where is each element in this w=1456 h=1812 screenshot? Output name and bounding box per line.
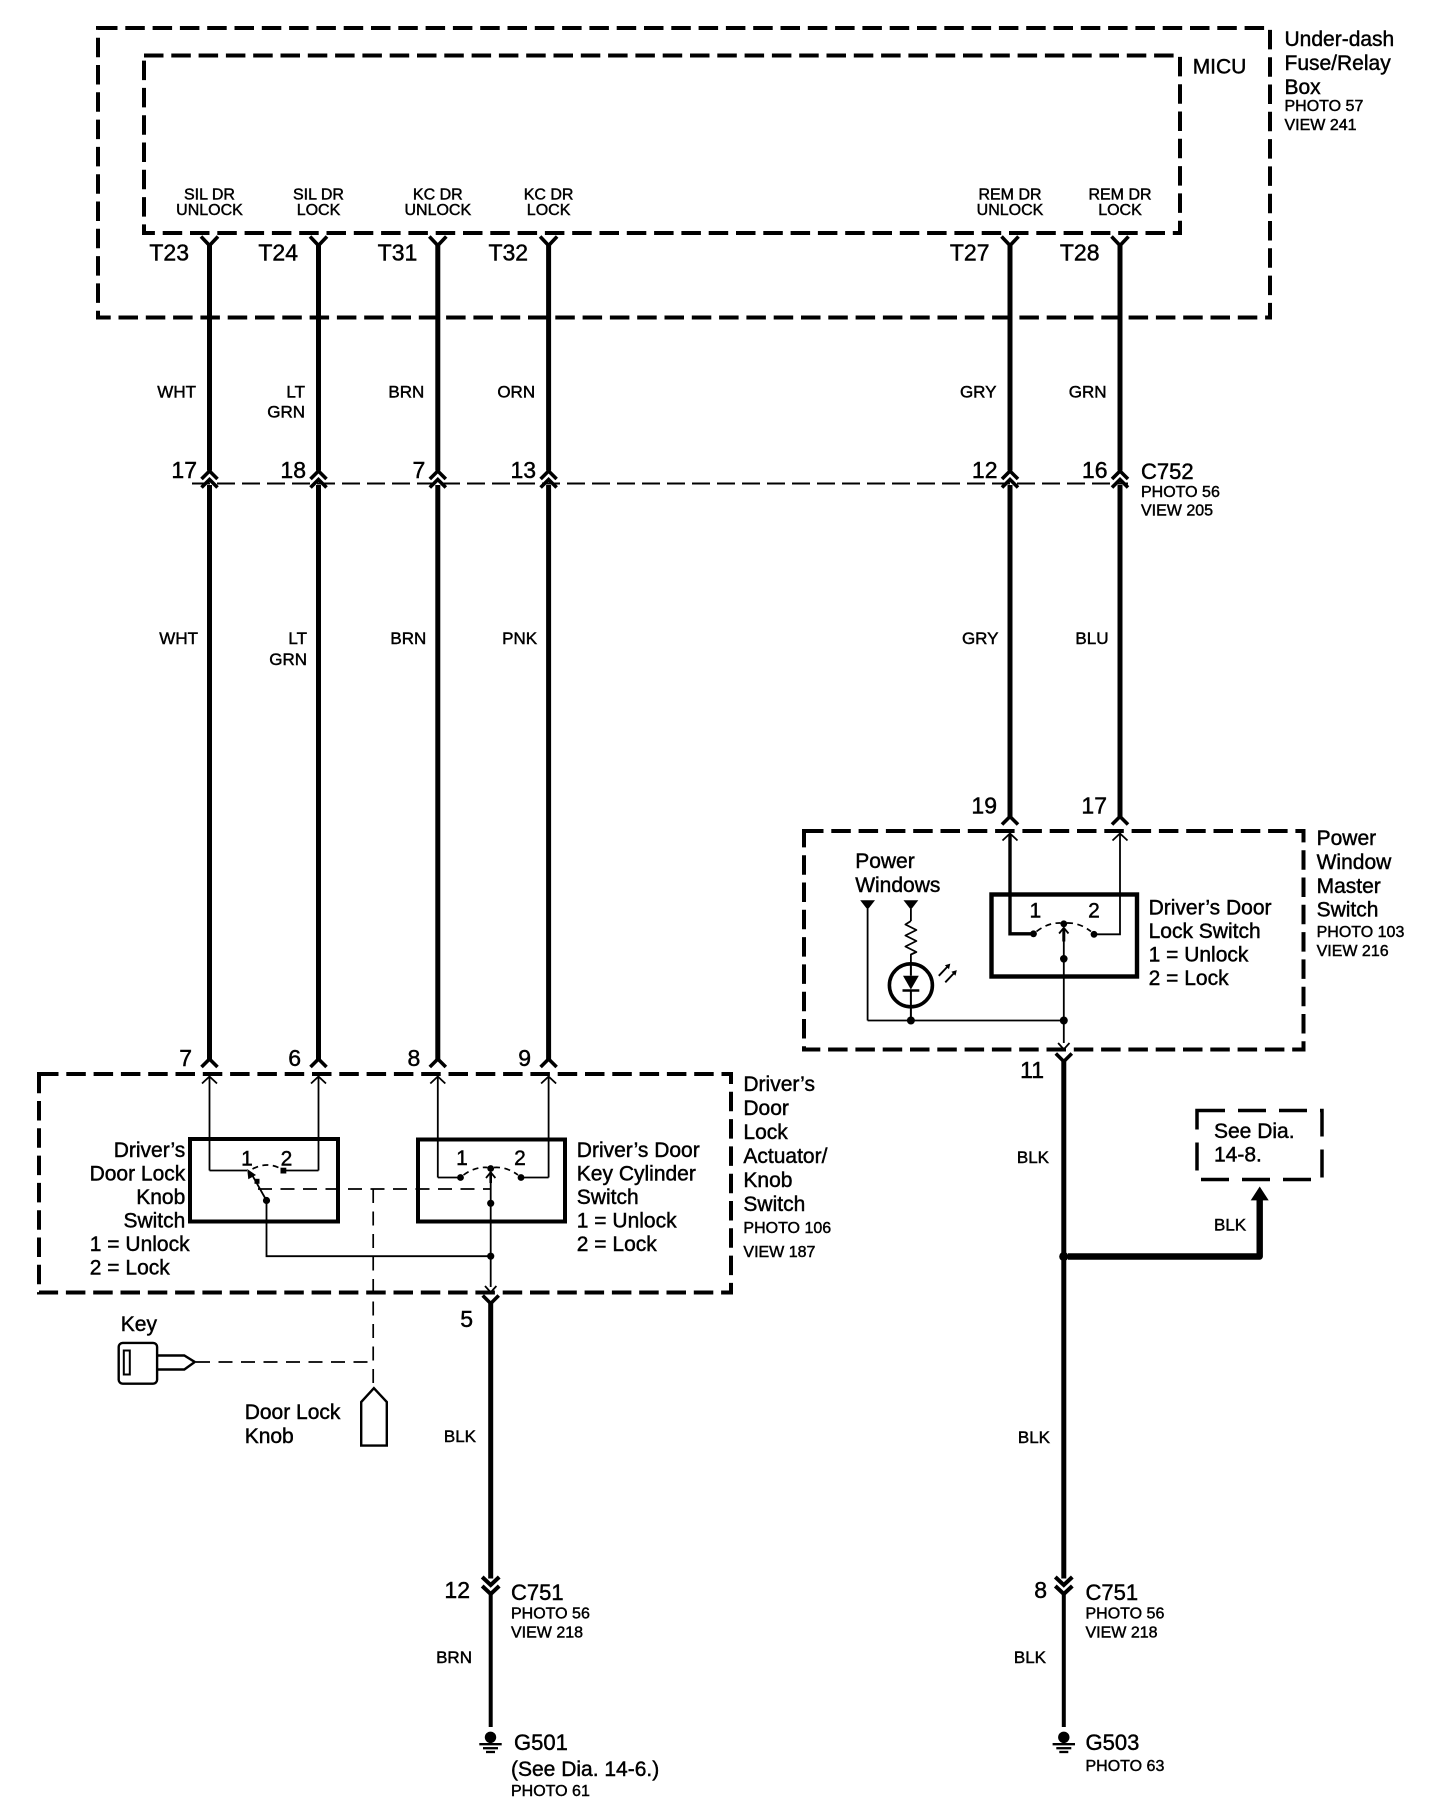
connector C751 left symbols bbox=[482, 1577, 499, 1594]
knob switch common lead down and right bbox=[267, 1201, 491, 1257]
svg-text:Driver’s Door: Driver’s Door bbox=[1149, 897, 1272, 920]
driver's door lock knob switch box bbox=[190, 1139, 338, 1222]
branch arrow to see dia 14-8 (triangle) bbox=[1251, 1187, 1269, 1201]
Door Lock Knob label bbox=[245, 1401, 341, 1448]
svg-text:Key: Key bbox=[121, 1313, 158, 1336]
lock switch common arrow bbox=[1059, 928, 1068, 1043]
svg-text:7: 7 bbox=[179, 1045, 192, 1071]
LED diode bar bbox=[903, 989, 920, 992]
C752 connector symbols on W1 bbox=[202, 471, 218, 488]
svg-text:G503: G503 bbox=[1086, 1730, 1140, 1755]
connector flare at master pin 19 bbox=[1002, 817, 1018, 825]
actuator box label bbox=[743, 1073, 831, 1261]
svg-text:Fuse/Relay: Fuse/Relay bbox=[1285, 52, 1392, 75]
key cylinder common arrow bbox=[486, 1172, 495, 1287]
connector C752 dashed line bbox=[192, 483, 1128, 485]
svg-text:SIL DR: SIL DR bbox=[184, 186, 235, 203]
key icon blade bbox=[157, 1356, 195, 1370]
svg-text:BRN: BRN bbox=[388, 383, 424, 402]
svg-text:LT: LT bbox=[288, 629, 307, 648]
svg-text:PHOTO 56: PHOTO 56 bbox=[1086, 1606, 1165, 1623]
key cylinder common stub bbox=[489, 1172, 492, 1183]
C752 pin 12 label bbox=[972, 457, 998, 483]
wire BRN from C751 to G501 bbox=[489, 1592, 493, 1727]
pin function label SIL DR LOCK bbox=[293, 186, 344, 219]
svg-text:T31: T31 bbox=[378, 240, 418, 266]
wire W3 BRN from C752 to actuator box bbox=[435, 485, 440, 1060]
svg-text:Driver’s: Driver’s bbox=[743, 1073, 815, 1096]
svg-text:2 = Lock: 2 = Lock bbox=[577, 1233, 657, 1256]
wire color label BLK (pin 11 lower) bbox=[1018, 1428, 1051, 1447]
internal arrow at pin 8 bbox=[430, 1077, 445, 1178]
see dia 14-8 label bbox=[1214, 1120, 1295, 1167]
svg-text:Knob: Knob bbox=[743, 1169, 792, 1192]
lock switch pin 1 label bbox=[1029, 900, 1041, 923]
svg-text:5: 5 bbox=[460, 1306, 473, 1332]
svg-text:MICU: MICU bbox=[1193, 56, 1247, 79]
svg-text:Driver’s Door: Driver’s Door bbox=[577, 1139, 700, 1162]
svg-text:T23: T23 bbox=[149, 240, 189, 266]
pin function label SIL DR UNLOCK bbox=[176, 186, 243, 219]
key cylinder wiring: pin9 lead to right contact bbox=[521, 1177, 549, 1179]
C752 connector symbols on W3 bbox=[430, 471, 446, 488]
knob switch label bbox=[90, 1139, 186, 1233]
svg-text:2 = Lock: 2 = Lock bbox=[1149, 967, 1229, 990]
svg-text:Switch: Switch bbox=[123, 1209, 185, 1232]
svg-text:1: 1 bbox=[241, 1148, 253, 1171]
lock switch contact 2 dot bbox=[1091, 931, 1098, 938]
master switch label bbox=[1317, 827, 1405, 960]
connector flare at actuator pin 6 bbox=[311, 1059, 327, 1067]
internal lead pin 19 to contact 1 bbox=[1010, 835, 1031, 934]
svg-text:C751: C751 bbox=[511, 1580, 564, 1605]
pin function label KC DR UNLOCK bbox=[404, 186, 471, 219]
lock switch dashed throws bbox=[1037, 923, 1092, 932]
terminal label T23 bbox=[149, 240, 189, 266]
svg-text:Driver’s: Driver’s bbox=[114, 1139, 186, 1162]
power window feed line 2 (to resistor) bbox=[910, 909, 912, 921]
wire color label LT GRN (upper) bbox=[267, 383, 305, 422]
internal lead pin 17 to contact 2 bbox=[1094, 835, 1120, 935]
Power Windows label bbox=[855, 850, 940, 897]
arrow at master box exit (pin 11) bbox=[1058, 1043, 1069, 1049]
wire color label BRN (ground lead) bbox=[436, 1648, 472, 1667]
svg-text:8: 8 bbox=[408, 1045, 421, 1071]
svg-text:GRY: GRY bbox=[962, 629, 999, 648]
svg-text:WHT: WHT bbox=[157, 383, 196, 402]
junction dot pin5 node bbox=[487, 1253, 494, 1260]
svg-text:T27: T27 bbox=[950, 240, 990, 266]
power window feed arrow 1 (triangle) bbox=[860, 900, 875, 909]
mechanical link dashed line (key to linkage) bbox=[196, 1361, 373, 1363]
svg-text:17: 17 bbox=[1081, 793, 1107, 819]
wire color label GRY (lower) bbox=[962, 629, 999, 648]
C752 pin 13 label bbox=[511, 457, 537, 483]
internal arrow at master pin 19 bbox=[1003, 834, 1018, 841]
ground G501 label bbox=[511, 1730, 659, 1800]
connector fork at MICU terminal T32 bbox=[540, 237, 557, 246]
svg-text:16: 16 bbox=[1082, 457, 1108, 483]
key icon head bbox=[119, 1343, 157, 1384]
key cylinder pin 1 label bbox=[456, 1147, 468, 1170]
knob switch pin 2 label bbox=[281, 1148, 293, 1171]
wire color label ORN (upper) bbox=[497, 383, 535, 402]
svg-text:Master: Master bbox=[1317, 875, 1381, 898]
lock switch pin 2 label bbox=[1088, 900, 1100, 923]
pin 5 label bbox=[460, 1306, 473, 1332]
lock switch common dot (inside box) bbox=[1060, 955, 1068, 963]
LED internal lead bbox=[910, 964, 912, 1021]
lock switch common stub bbox=[1062, 929, 1065, 942]
svg-text:GRY: GRY bbox=[960, 383, 997, 402]
svg-text:(See Dia. 14-6.): (See Dia. 14-6.) bbox=[511, 1758, 659, 1781]
svg-text:12: 12 bbox=[444, 1577, 470, 1603]
svg-text:1 = Unlock: 1 = Unlock bbox=[90, 1233, 190, 1256]
svg-text:BLU: BLU bbox=[1075, 629, 1108, 648]
svg-text:C752: C752 bbox=[1141, 459, 1194, 484]
wire color label BLK (ground lead right) bbox=[1014, 1648, 1047, 1667]
wire color label WHT (lower) bbox=[159, 629, 198, 648]
driver's door key cylinder switch box bbox=[418, 1140, 565, 1222]
resistor (illumination) bbox=[905, 921, 916, 964]
terminal label T24 bbox=[258, 240, 298, 266]
wire W6 GRN from T28 to C752 bbox=[1118, 245, 1123, 471]
svg-text:VIEW 216: VIEW 216 bbox=[1317, 943, 1389, 960]
common bus line inside master switch bbox=[868, 1020, 1064, 1022]
key cylinder pin 2 label bbox=[514, 1147, 526, 1170]
wire W5 GRY from T27 to C752 bbox=[1008, 245, 1013, 471]
mechanical link dashed line (vertical to knob) bbox=[372, 1189, 374, 1386]
connector fork at MICU terminal T28 bbox=[1112, 237, 1129, 246]
actuator box pin 8 label bbox=[408, 1045, 421, 1071]
svg-text:2 = Lock: 2 = Lock bbox=[90, 1256, 170, 1279]
svg-text:1 = Unlock: 1 = Unlock bbox=[1149, 944, 1249, 967]
connector fork at pin 11 bbox=[1056, 1054, 1072, 1062]
key cylinder pivot dot bbox=[487, 1165, 494, 1172]
svg-text:KC DR: KC DR bbox=[413, 186, 463, 203]
knob switch pin 1 label bbox=[241, 1148, 253, 1171]
svg-text:VIEW 187: VIEW 187 bbox=[743, 1244, 815, 1261]
svg-text:PHOTO 103: PHOTO 103 bbox=[1317, 924, 1405, 941]
wire W1 WHT from T23 to C752 bbox=[207, 245, 212, 471]
wire pin 5 BLK down to C751 bbox=[488, 1303, 493, 1579]
svg-text:WHT: WHT bbox=[159, 629, 198, 648]
svg-text:Knob: Knob bbox=[136, 1186, 185, 1209]
connector flare at actuator pin 8 bbox=[430, 1059, 446, 1067]
svg-text:Box: Box bbox=[1285, 76, 1322, 99]
svg-text:Switch: Switch bbox=[743, 1193, 805, 1216]
terminal label T32 bbox=[488, 240, 528, 266]
svg-text:1: 1 bbox=[1029, 900, 1041, 923]
MICU box (dashed) bbox=[144, 56, 1180, 234]
internal arrow at pin 6 bbox=[311, 1077, 326, 1171]
svg-text:UNLOCK: UNLOCK bbox=[404, 202, 471, 219]
lock switch contact 1 dot bbox=[1030, 930, 1037, 937]
see dia 14-8 reference box (dashed) bbox=[1197, 1111, 1322, 1180]
C752 connector symbols on W6 bbox=[1112, 471, 1128, 488]
knob switch lever arrowhead bbox=[247, 1169, 256, 1179]
master switch pin 19 label bbox=[971, 793, 997, 819]
svg-text:ORN: ORN bbox=[497, 383, 535, 402]
svg-text:BLK: BLK bbox=[444, 1427, 477, 1446]
junction dot at branch bbox=[1059, 1252, 1068, 1261]
svg-text:Switch: Switch bbox=[577, 1186, 639, 1209]
svg-text:Power: Power bbox=[855, 850, 915, 873]
wire color label BRN (lower) bbox=[390, 629, 426, 648]
key cylinder wiring: pin8 lead to left contact bbox=[438, 1177, 461, 1179]
svg-text:GRN: GRN bbox=[267, 403, 305, 422]
svg-text:11: 11 bbox=[1020, 1057, 1044, 1083]
wire W4 PNK from C752 to actuator box bbox=[546, 485, 551, 1060]
pin function label KC DR LOCK bbox=[524, 186, 574, 219]
pin function label REM DR UNLOCK bbox=[977, 186, 1044, 219]
svg-text:PHOTO 57: PHOTO 57 bbox=[1285, 98, 1364, 115]
C752 pin 7 label bbox=[413, 457, 426, 483]
connector fork at MICU terminal T23 bbox=[201, 237, 218, 246]
C752 pin 16 label bbox=[1082, 457, 1108, 483]
ground G503 symbol bbox=[1058, 1732, 1069, 1743]
svg-text:GRN: GRN bbox=[269, 650, 307, 669]
branch wire BLK to see dia 14-8 bbox=[1068, 1198, 1260, 1257]
C751 right pin 8 label bbox=[1034, 1577, 1047, 1603]
svg-text:C751: C751 bbox=[1086, 1580, 1139, 1605]
C751 left pin 12 label bbox=[444, 1577, 470, 1603]
internal arrow at pin 9 bbox=[541, 1077, 556, 1178]
knob switch wiring: pin7 lead to contact 1 bbox=[210, 1170, 248, 1172]
wire W2 LT GRN from T24 to C752 bbox=[316, 245, 321, 471]
wire BLK pin 11 down bbox=[1061, 1061, 1066, 1579]
svg-text:Door Lock: Door Lock bbox=[90, 1162, 186, 1185]
connector fork at MICU terminal T24 bbox=[310, 237, 327, 246]
svg-text:UNLOCK: UNLOCK bbox=[977, 202, 1044, 219]
internal arrow at master pin 17 bbox=[1113, 834, 1128, 841]
svg-text:T28: T28 bbox=[1060, 240, 1100, 266]
lock switch pivot dot bbox=[1060, 920, 1067, 927]
svg-text:Key Cylinder: Key Cylinder bbox=[577, 1162, 696, 1185]
svg-text:See Dia.: See Dia. bbox=[1214, 1120, 1295, 1143]
svg-text:12: 12 bbox=[972, 457, 998, 483]
svg-text:LOCK: LOCK bbox=[297, 202, 341, 219]
svg-text:6: 6 bbox=[288, 1045, 301, 1071]
svg-text:LT: LT bbox=[286, 383, 305, 402]
LED diode triangle bbox=[903, 976, 919, 990]
wire W4 ORN from T32 to C752 bbox=[546, 245, 551, 471]
driver's door lock actuator/knob switch box (dashed) bbox=[39, 1074, 731, 1293]
power window feed line 1 bbox=[867, 909, 869, 1021]
svg-text:Lock: Lock bbox=[743, 1121, 788, 1144]
svg-text:BLK: BLK bbox=[1014, 1648, 1047, 1667]
LED circle bbox=[889, 964, 932, 1007]
svg-text:14-8.: 14-8. bbox=[1214, 1144, 1262, 1167]
svg-text:T32: T32 bbox=[488, 240, 528, 266]
key cylinder dashed throws bbox=[464, 1167, 519, 1175]
svg-text:8: 8 bbox=[1034, 1577, 1047, 1603]
terminal label T28 bbox=[1060, 240, 1100, 266]
pin 11 label bbox=[1020, 1057, 1044, 1083]
svg-text:VIEW 218: VIEW 218 bbox=[511, 1625, 583, 1642]
C751 right connector label bbox=[1086, 1580, 1165, 1642]
C752 connector symbols on W4 bbox=[541, 471, 557, 488]
driver's door lock switch box bbox=[992, 895, 1138, 977]
actuator box pin 7 label bbox=[179, 1045, 192, 1071]
actuator box pin 6 label bbox=[288, 1045, 301, 1071]
svg-text:Window: Window bbox=[1317, 851, 1393, 874]
knob switch alternate position (dashed arc) bbox=[253, 1165, 282, 1169]
terminal label T31 bbox=[378, 240, 418, 266]
wire color label BLK (pin 11 upper) bbox=[1017, 1148, 1050, 1167]
svg-text:BLK: BLK bbox=[1214, 1216, 1247, 1235]
actuator box pin 9 label bbox=[518, 1045, 531, 1071]
svg-text:2: 2 bbox=[514, 1147, 526, 1170]
svg-text:1: 1 bbox=[456, 1147, 468, 1170]
svg-text:Under-dash: Under-dash bbox=[1285, 28, 1395, 51]
svg-text:LOCK: LOCK bbox=[527, 202, 571, 219]
wire W5 GRY from C752 to master switch bbox=[1008, 485, 1013, 817]
Key label bbox=[121, 1313, 158, 1336]
ground G503 label bbox=[1086, 1730, 1165, 1775]
svg-text:7: 7 bbox=[413, 457, 426, 483]
svg-text:PHOTO 63: PHOTO 63 bbox=[1086, 1758, 1165, 1775]
svg-text:PHOTO 56: PHOTO 56 bbox=[1141, 484, 1220, 501]
svg-text:VIEW 205: VIEW 205 bbox=[1141, 503, 1213, 520]
svg-text:2: 2 bbox=[1088, 900, 1100, 923]
MICU label bbox=[1193, 56, 1247, 79]
internal arrow at pin 7 bbox=[202, 1077, 217, 1171]
svg-text:BRN: BRN bbox=[436, 1648, 472, 1667]
svg-text:VIEW 218: VIEW 218 bbox=[1086, 1625, 1158, 1642]
terminal label T27 bbox=[950, 240, 990, 266]
arrow at actuator box exit (pin 5) bbox=[485, 1286, 496, 1292]
under-dash fuse/relay box label bbox=[1285, 28, 1395, 134]
wire color label BLU (lower) bbox=[1075, 629, 1108, 648]
key cylinder left contact dot bbox=[457, 1174, 464, 1181]
knob switch lever (to contact 1) bbox=[251, 1173, 267, 1201]
ground G501 symbol bbox=[485, 1732, 496, 1743]
C752 connector label bbox=[1141, 459, 1220, 520]
svg-text:VIEW 241: VIEW 241 bbox=[1285, 117, 1357, 134]
key cylinder right contact dot bbox=[518, 1174, 525, 1181]
svg-text:BLK: BLK bbox=[1017, 1148, 1050, 1167]
svg-text:UNLOCK: UNLOCK bbox=[176, 202, 243, 219]
knob switch contact 2 (square) bbox=[281, 1168, 287, 1174]
svg-text:17: 17 bbox=[171, 457, 197, 483]
master switch pin 17 label bbox=[1081, 793, 1107, 819]
connector fork at pin 5 bbox=[483, 1296, 499, 1304]
lock switch label bbox=[1149, 897, 1272, 991]
svg-text:BLK: BLK bbox=[1018, 1428, 1051, 1447]
svg-text:PHOTO 56: PHOTO 56 bbox=[511, 1606, 590, 1623]
wire BLK from C751 to G503 bbox=[1062, 1592, 1066, 1727]
C752 connector symbols on W5 bbox=[1002, 471, 1018, 488]
junction dot LED to bus bbox=[907, 1017, 915, 1025]
C752 pin 18 label bbox=[280, 457, 306, 483]
power window feed arrow 2 (triangle) bbox=[904, 900, 919, 909]
junction dot common to bus bbox=[1060, 1017, 1068, 1025]
under-dash fuse/relay box (dashed enclosure) bbox=[98, 28, 1270, 318]
svg-text:GRN: GRN bbox=[1069, 383, 1107, 402]
wire color label BRN (upper) bbox=[388, 383, 424, 402]
svg-text:Power: Power bbox=[1317, 827, 1377, 850]
wire W6 BLU from C752 to master switch bbox=[1118, 485, 1123, 817]
svg-text:Knob: Knob bbox=[245, 1425, 294, 1448]
pin function label REM DR LOCK bbox=[1088, 186, 1151, 219]
svg-text:9: 9 bbox=[518, 1045, 531, 1071]
wire color label LT GRN (lower) bbox=[269, 629, 307, 669]
connector fork at MICU terminal T31 bbox=[429, 237, 446, 246]
svg-text:2: 2 bbox=[281, 1148, 293, 1171]
wire color label BLK (pin 5) bbox=[444, 1427, 477, 1446]
svg-text:SIL DR: SIL DR bbox=[293, 186, 344, 203]
wire color label GRN (upper) bbox=[1069, 383, 1107, 402]
C752 connector symbols on W2 bbox=[311, 471, 327, 488]
svg-text:REM DR: REM DR bbox=[1088, 186, 1151, 203]
wire color label PNK (lower) bbox=[502, 629, 538, 648]
key icon inner bar bbox=[124, 1351, 130, 1375]
connector flare at master pin 17 bbox=[1112, 817, 1128, 825]
svg-text:REM DR: REM DR bbox=[978, 186, 1041, 203]
svg-text:BRN: BRN bbox=[390, 629, 426, 648]
svg-text:Windows: Windows bbox=[855, 874, 940, 897]
wire W1 WHT from C752 to actuator box bbox=[207, 485, 212, 1060]
svg-text:13: 13 bbox=[511, 457, 537, 483]
knob switch mechanical tab bbox=[255, 1179, 260, 1184]
connector C751 right symbols bbox=[1055, 1577, 1072, 1594]
svg-text:T24: T24 bbox=[258, 240, 298, 266]
mechanical link dashed line (lever to key cylinder) bbox=[258, 1188, 490, 1190]
door lock knob symbol bbox=[361, 1388, 387, 1445]
svg-text:LOCK: LOCK bbox=[1098, 202, 1142, 219]
svg-text:1 = Unlock: 1 = Unlock bbox=[577, 1209, 677, 1232]
connector flare at actuator pin 7 bbox=[202, 1059, 218, 1067]
wire W3 BRN from T31 to C752 bbox=[435, 245, 440, 471]
wire W2 LT GRN from C752 to actuator box bbox=[316, 485, 321, 1060]
wire color label WHT (upper) bbox=[157, 383, 196, 402]
branch wire color label BLK bbox=[1214, 1216, 1247, 1235]
svg-text:Door: Door bbox=[743, 1097, 789, 1120]
svg-text:Actuator/: Actuator/ bbox=[743, 1145, 827, 1168]
connector fork at MICU terminal T27 bbox=[1002, 237, 1019, 246]
svg-text:Switch: Switch bbox=[1317, 899, 1379, 922]
connector flare at actuator pin 9 bbox=[541, 1059, 557, 1067]
svg-text:Lock Switch: Lock Switch bbox=[1149, 920, 1261, 943]
svg-text:KC DR: KC DR bbox=[524, 186, 574, 203]
svg-text:PNK: PNK bbox=[502, 629, 538, 648]
svg-text:PHOTO 106: PHOTO 106 bbox=[743, 1220, 831, 1237]
svg-text:G501: G501 bbox=[514, 1730, 568, 1755]
svg-text:18: 18 bbox=[280, 457, 306, 483]
key cylinder switch label bbox=[577, 1139, 700, 1256]
knob switch wiring: pin6 lead to contact 2 bbox=[286, 1170, 319, 1172]
svg-text:PHOTO 61: PHOTO 61 bbox=[511, 1783, 590, 1800]
svg-text:Door Lock: Door Lock bbox=[245, 1401, 341, 1424]
LED light arrows bbox=[939, 967, 954, 983]
wire color label GRY (upper) bbox=[960, 383, 997, 402]
C752 pin 17 label bbox=[171, 457, 197, 483]
key cylinder common junction dot (inside box) bbox=[487, 1200, 494, 1207]
knob switch common dot bbox=[263, 1197, 270, 1204]
svg-text:19: 19 bbox=[971, 793, 997, 819]
C751 left connector label bbox=[511, 1580, 590, 1642]
power window master switch box (dashed) bbox=[804, 831, 1304, 1050]
